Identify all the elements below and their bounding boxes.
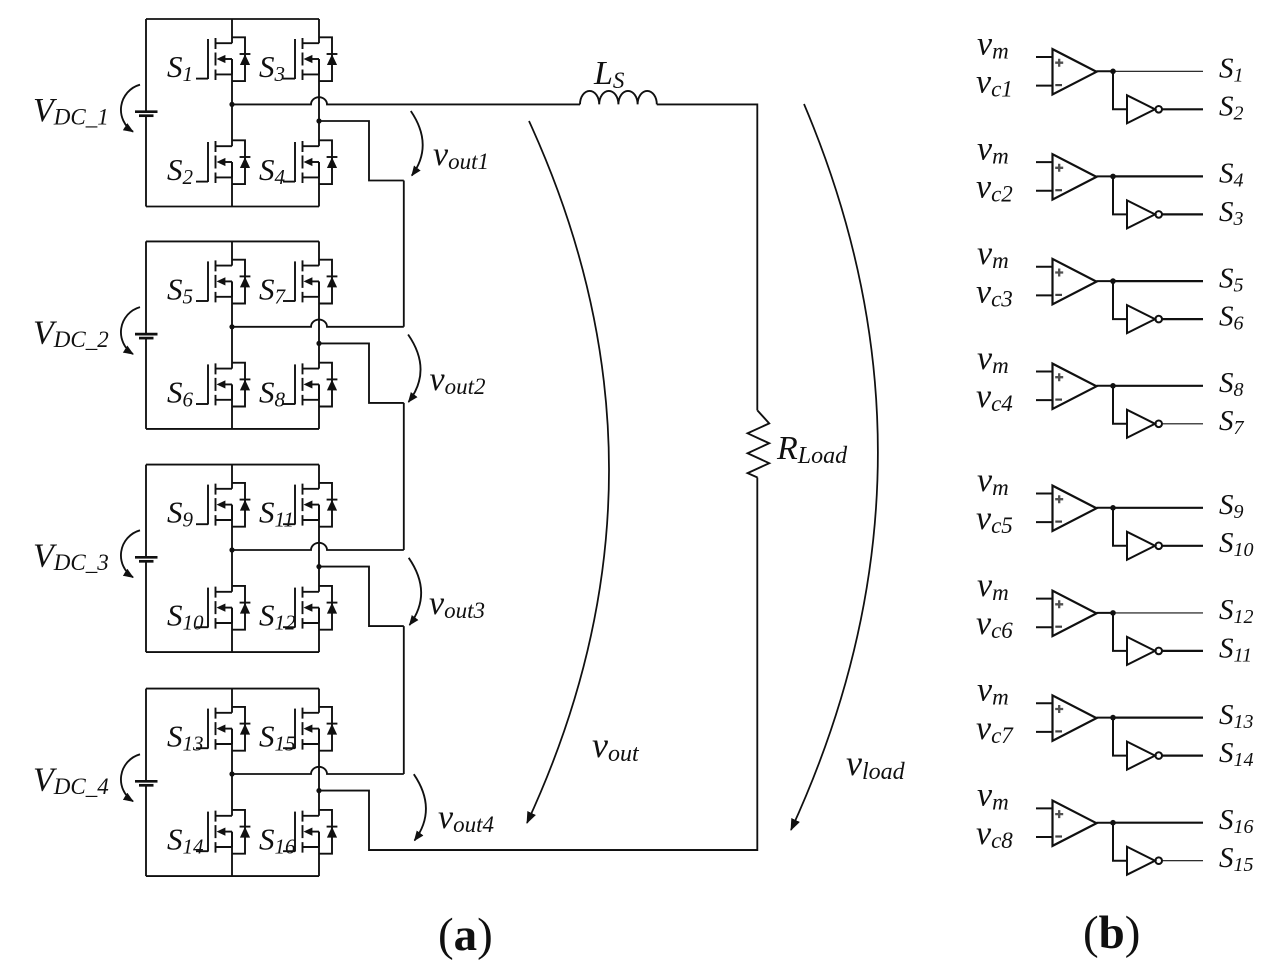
- wire cell 1 right-mid jog: [319, 121, 404, 181]
- svg-text:S13: S13: [167, 719, 204, 756]
- node cell 1 right midpoint: [316, 118, 321, 123]
- transistor S16: [259, 810, 337, 859]
- wire junction 4 to inverter: [1113, 386, 1127, 424]
- inverter G8: [1127, 847, 1162, 875]
- svg-text:S4: S4: [259, 152, 286, 189]
- wire to S10: [1162, 545, 1203, 547]
- transistor S5: [167, 260, 250, 309]
- battery V_DC_3: [33, 530, 158, 577]
- wire to S2: [1162, 108, 1203, 110]
- wire to S3: [1162, 213, 1203, 215]
- node row 1 junction: [1110, 69, 1116, 75]
- wire to S4: [1113, 175, 1203, 177]
- node cell 4 right midpoint: [316, 788, 321, 793]
- svg-text:vc1: vc1: [976, 64, 1013, 102]
- svg-text:VDC_4: VDC_4: [33, 762, 109, 800]
- wire right leg rail cell 2: [318, 241, 320, 429]
- transistor S13: [167, 707, 250, 756]
- svg-text:S16: S16: [259, 822, 296, 859]
- op-amp U3: [1036, 259, 1097, 304]
- transistor S8: [259, 363, 337, 412]
- node row 6 junction: [1110, 610, 1116, 616]
- wire to S12: [1113, 612, 1203, 614]
- op-amp U6: [1036, 591, 1097, 636]
- wire junction 1 to inverter: [1113, 71, 1127, 109]
- wire cell 1 left-mid output (hop over right leg): [232, 97, 580, 104]
- svg-text:S9: S9: [1219, 489, 1244, 523]
- transistor S3: [259, 37, 337, 86]
- wire junction 6 to inverter: [1113, 613, 1127, 651]
- wire right leg rail cell 1: [318, 19, 320, 207]
- svg-text:S7: S7: [259, 271, 287, 308]
- wire to S5: [1113, 280, 1203, 282]
- wire to S9: [1113, 507, 1203, 509]
- svg-text:S6: S6: [167, 374, 194, 411]
- node cell 3 left midpoint: [229, 547, 234, 552]
- wire to S7: [1162, 423, 1203, 425]
- node row 4 junction: [1110, 383, 1116, 389]
- battery V_DC_1: [33, 85, 158, 132]
- svg-text:S5: S5: [1219, 262, 1244, 296]
- wire right leg rail cell 4: [318, 689, 320, 877]
- svg-text:vc4: vc4: [976, 378, 1013, 416]
- svg-text:VDC_2: VDC_2: [33, 314, 109, 352]
- svg-text:vc2: vc2: [976, 169, 1013, 207]
- wire comparator 2 output: [1097, 175, 1114, 177]
- svg-text:S10: S10: [167, 598, 204, 635]
- inverter G1: [1127, 95, 1162, 123]
- svg-text:vc8: vc8: [976, 815, 1013, 853]
- wire H-bridge 4 frame: [146, 689, 319, 877]
- svg-text:S15: S15: [259, 719, 296, 756]
- svg-text:vout3: vout3: [429, 585, 485, 623]
- node cell 3 right midpoint: [316, 564, 321, 569]
- wire left leg rail cell 1: [231, 19, 233, 207]
- svg-text:S16: S16: [1219, 804, 1254, 838]
- battery V_DC_2: [33, 307, 158, 354]
- wire junction 8 to inverter: [1113, 823, 1127, 861]
- svg-text:S13: S13: [1219, 699, 1254, 733]
- svg-text:vm: vm: [977, 567, 1009, 605]
- svg-text:vout1: vout1: [433, 136, 489, 174]
- svg-text:S2: S2: [1219, 91, 1244, 125]
- transistor S12: [259, 586, 337, 635]
- wire comparator 5 output: [1097, 507, 1114, 509]
- wire left leg rail cell 4: [231, 689, 233, 877]
- svg-text:VDC_1: VDC_1: [33, 92, 109, 130]
- node cell 1 left midpoint: [229, 102, 234, 107]
- wire to S16: [1113, 822, 1203, 824]
- svg-text:vm: vm: [977, 672, 1009, 710]
- wire cell 4 right-mid jog: [319, 791, 757, 851]
- wire cell 4 left-mid output (hop over right leg): [232, 767, 404, 774]
- voltage arrow v_out: [527, 121, 609, 823]
- svg-text:S3: S3: [1219, 196, 1244, 230]
- wire comparator 4 output: [1097, 385, 1114, 387]
- transistor S6: [167, 363, 250, 412]
- transistor S2: [167, 140, 250, 189]
- svg-text:S2: S2: [167, 152, 194, 189]
- inverter G4: [1127, 410, 1162, 438]
- wire comparator 6 output: [1097, 612, 1114, 614]
- svg-text:S3: S3: [259, 49, 285, 86]
- svg-text:S11: S11: [259, 495, 294, 532]
- transistor S14: [167, 810, 250, 859]
- wire comparator 1 output: [1097, 70, 1114, 72]
- node row 5 junction: [1110, 505, 1116, 511]
- wire junction 7 to inverter: [1113, 718, 1127, 756]
- node row 2 junction: [1110, 174, 1116, 180]
- wire right leg rail cell 3: [318, 465, 320, 652]
- voltage arrow v_out3: [409, 558, 421, 625]
- wire series bus 3-4: [403, 626, 405, 774]
- svg-text:vm: vm: [977, 130, 1009, 168]
- battery V_DC_4: [33, 754, 158, 801]
- transistor S15: [259, 707, 337, 756]
- inverter G7: [1127, 742, 1162, 770]
- svg-text:S1: S1: [1219, 53, 1244, 87]
- inverter G5: [1127, 532, 1162, 560]
- transistor S7: [259, 260, 337, 309]
- svg-text:S4: S4: [1219, 158, 1244, 192]
- svg-text:vload: vload: [846, 743, 906, 785]
- node cell 2 right midpoint: [316, 341, 321, 346]
- op-amp U4: [1036, 364, 1097, 409]
- node row 7 junction: [1110, 715, 1116, 721]
- svg-text:LS: LS: [593, 55, 625, 93]
- wire cell 2 left-mid output (hop over right leg): [232, 320, 404, 327]
- svg-text:S11: S11: [1219, 632, 1252, 666]
- wire cell 3 right-mid jog: [319, 567, 404, 627]
- wire to S15: [1162, 860, 1203, 862]
- transistor S4: [259, 140, 337, 189]
- wire to S11: [1162, 650, 1203, 652]
- svg-text:vout: vout: [592, 725, 640, 767]
- svg-text:S12: S12: [1219, 594, 1254, 628]
- wire H-bridge 3 frame: [146, 465, 319, 652]
- node cell 4 left midpoint: [229, 771, 234, 776]
- wire junction 2 to inverter: [1113, 176, 1127, 214]
- svg-text:vm: vm: [977, 462, 1009, 500]
- svg-text:vm: vm: [977, 25, 1009, 63]
- wire to S6: [1162, 318, 1203, 320]
- svg-text:S9: S9: [167, 495, 194, 532]
- svg-text:vc6: vc6: [976, 605, 1013, 643]
- svg-text:vm: vm: [977, 235, 1009, 273]
- op-amp U8: [1036, 801, 1097, 846]
- wire comparator 7 output: [1097, 717, 1114, 719]
- svg-text:vc3: vc3: [976, 273, 1013, 311]
- svg-text:vout2: vout2: [430, 361, 486, 399]
- inductor LS: [580, 55, 657, 104]
- wire inductor to load: [657, 104, 758, 410]
- wire junction 5 to inverter: [1113, 508, 1127, 546]
- wire to S1: [1113, 70, 1203, 72]
- wire to S8: [1113, 385, 1203, 387]
- svg-text:vout4: vout4: [438, 799, 494, 837]
- svg-text:VDC_3: VDC_3: [33, 538, 109, 576]
- svg-text:vm: vm: [977, 777, 1009, 815]
- wire H-bridge 1 frame: [146, 19, 319, 207]
- op-amp U7: [1036, 695, 1097, 740]
- svg-text:vc5: vc5: [976, 500, 1013, 538]
- voltage arrow v_out1: [411, 111, 423, 176]
- inverter G6: [1127, 637, 1162, 665]
- wire left leg rail cell 2: [231, 241, 233, 429]
- wire comparator 8 output: [1097, 822, 1114, 824]
- svg-text:RLoad: RLoad: [776, 430, 848, 469]
- svg-text:S14: S14: [167, 822, 204, 859]
- inverter G3: [1127, 305, 1162, 333]
- inverter G2: [1127, 200, 1162, 228]
- node row 3 junction: [1110, 278, 1116, 284]
- svg-text:vc7: vc7: [976, 710, 1014, 748]
- svg-text:S12: S12: [259, 598, 296, 635]
- svg-text:(b): (b): [1083, 907, 1140, 959]
- wire series bus 2-3: [403, 403, 405, 550]
- voltage arrow v_out2: [408, 335, 420, 403]
- wire comparator 3 output: [1097, 280, 1114, 282]
- wire to S14: [1162, 754, 1203, 756]
- node cell 2 left midpoint: [229, 324, 234, 329]
- wire series bus 1-2: [403, 181, 405, 327]
- svg-text:S8: S8: [1219, 367, 1244, 401]
- wire H-bridge 2 frame: [146, 241, 319, 429]
- wire left leg rail cell 3: [231, 465, 233, 652]
- transistor S9: [167, 483, 250, 532]
- voltage arrow v_load: [791, 104, 878, 830]
- svg-text:vm: vm: [977, 340, 1009, 378]
- wire load to bottom: [369, 478, 757, 851]
- svg-text:S10: S10: [1219, 527, 1254, 561]
- op-amp U5: [1036, 486, 1097, 531]
- svg-text:S7: S7: [1219, 405, 1245, 439]
- transistor S11: [259, 483, 337, 532]
- wire cell 2 right-mid jog: [319, 343, 404, 403]
- wire to S13: [1113, 716, 1203, 718]
- wire junction 3 to inverter: [1113, 281, 1127, 319]
- resistor RLoad: [748, 411, 849, 478]
- wire cell 3 left-mid output (hop over right leg): [232, 543, 404, 550]
- node row 8 junction: [1110, 820, 1116, 826]
- svg-text:S5: S5: [167, 271, 193, 308]
- svg-text:(a): (a): [438, 909, 493, 961]
- voltage arrow v_out4: [414, 774, 426, 840]
- svg-text:S6: S6: [1219, 301, 1244, 335]
- transistor S1: [167, 37, 250, 86]
- op-amp U2: [1036, 154, 1097, 199]
- transistor S10: [167, 586, 250, 635]
- op-amp U1: [1036, 49, 1097, 94]
- svg-text:S8: S8: [259, 374, 286, 411]
- svg-text:S14: S14: [1219, 737, 1254, 771]
- svg-text:S1: S1: [167, 49, 193, 86]
- svg-text:S15: S15: [1219, 842, 1254, 876]
